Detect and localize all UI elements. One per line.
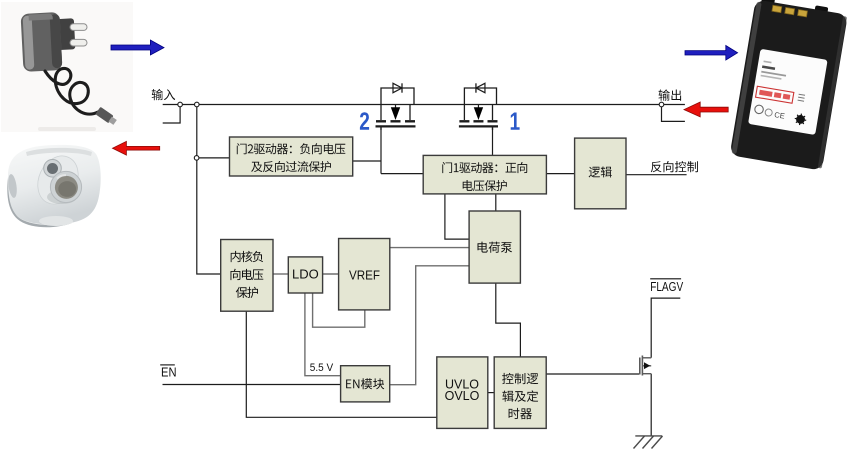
svg-text:LDO: LDO: [292, 266, 319, 281]
wire: gate1 driver to logic: [546, 173, 574, 175]
wire: junction to gate2 driver: [199, 157, 230, 159]
wire: EN input line: [163, 384, 341, 386]
block U-cp: charge pump: [469, 211, 520, 283]
block U-ldo: LDO: [288, 257, 322, 293]
wire: charge pump to control logic: [496, 283, 521, 357]
label: pin number 1 for Q1: [511, 113, 520, 130]
transistor Q1 (forward protection MOSFET) with body diode: [464, 88, 496, 105]
wire: gate2 driver output: [353, 160, 381, 162]
svg-text:CE: CE: [774, 110, 786, 121]
wire: gate2 lead vertical: [380, 128, 382, 174]
arrow: red reverse arrow (right): [684, 102, 728, 117]
wire: UVLO to control logic: [488, 392, 494, 394]
svg-text:EN: EN: [161, 365, 177, 379]
net label: 输出 (output): [659, 89, 682, 100]
wire: gate1 driver to charge pump (left): [445, 194, 469, 239]
label: pin number 2 for Q2: [360, 112, 369, 130]
svg-text:5.5 V: 5.5 V: [310, 362, 334, 374]
wire: core block to LDO: [273, 273, 288, 275]
ground (chassis) symbol: [635, 435, 662, 437]
wire: to gate1 driver input: [381, 173, 423, 175]
svg-text:OVLO: OVLO: [445, 389, 480, 403]
block U-en: EN module: [341, 366, 390, 402]
net label: 反向控制 (reverse control): [651, 161, 698, 172]
photo: AC adapter: [1, 2, 133, 132]
block U-ctrl: control logic and timer: [494, 357, 546, 429]
wire: logic to reverse-control: [626, 174, 687, 176]
svg-text:VREF: VREF: [349, 267, 380, 282]
net label: 输入 (input): [152, 89, 176, 100]
photo: battery pack: [730, 0, 849, 171]
wire: input connector bracket: [163, 105, 180, 124]
block U-logic: logic: [575, 138, 626, 209]
block U-core: core negative voltage protection: [221, 240, 273, 312]
node: input rail junction: [195, 102, 200, 107]
wire: EN module to charge pump: [390, 266, 469, 385]
wire: core block to UVLO/OVLO: [246, 311, 436, 417]
wire: main power rail input to output: [163, 104, 685, 106]
block U-uvlo: UVLO/OVLO: [437, 357, 488, 429]
node: input terminal: [178, 102, 183, 107]
photo: charging cradle device: [7, 145, 101, 227]
wire: LDO to VREF bottom loop: [313, 293, 365, 327]
node: output terminal: [659, 102, 664, 107]
wire: LDO to VREF: [323, 273, 339, 275]
wire: vertical junction to core block: [197, 160, 221, 274]
block U-gate2: gate-2 driver: [230, 137, 353, 176]
wire: VREF to charge pump: [390, 247, 469, 249]
wire: output connector bracket: [662, 105, 685, 122]
transistor Q2 (reverse protection MOSFET) with body diode: [381, 88, 414, 105]
svg-text:FLAGV: FLAGV: [650, 280, 684, 294]
arrow: red reverse arrow (left): [113, 141, 160, 155]
wire: vertical from input junction: [196, 107, 198, 156]
wire: gate1 lead vertical: [492, 128, 494, 156]
wire: Q3 source to ground: [650, 374, 652, 436]
block U-vref: VREF: [339, 239, 390, 310]
transistor Q3 (FLAGV open-drain MOSFET): [639, 358, 641, 375]
node: gate2-driver tap junction: [194, 156, 199, 161]
wire: LDO 5.5V output to EN module: [305, 293, 341, 376]
wire: gate1 driver to charge pump (top): [495, 194, 497, 211]
wire: control logic to Q3 gate: [546, 373, 639, 375]
arrow: blue output-direction arrow (right): [685, 46, 738, 61]
block U-gate1: gate-1 driver: [423, 155, 546, 194]
wire: FLAGV drain connection: [651, 298, 680, 358]
arrow: blue input-direction arrow (left): [111, 40, 164, 55]
